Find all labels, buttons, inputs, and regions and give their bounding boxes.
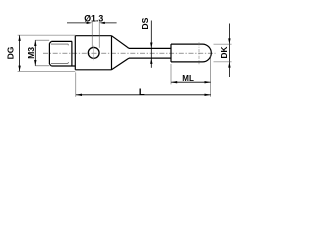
DK arrows xyxy=(228,38,230,44)
cross hole circle xyxy=(88,47,99,58)
L left extension line xyxy=(75,72,77,96)
ML arrows xyxy=(171,81,177,83)
hole vertical centerline xyxy=(93,46,95,61)
L dimension line xyxy=(76,94,211,96)
svg-text:Ø1.3: Ø1.3 xyxy=(84,13,103,23)
DK extension lines xyxy=(214,44,232,62)
thread M3 outline xyxy=(49,41,75,66)
sphere centerline xyxy=(198,42,200,64)
svg-text:DS: DS xyxy=(140,17,150,29)
stem xyxy=(129,48,171,58)
DS arrows xyxy=(150,43,152,49)
DK dimension lines xyxy=(228,24,230,78)
dimension Ø1.3 lines xyxy=(67,22,117,24)
svg-text:ML: ML xyxy=(182,74,194,83)
ML left extension line xyxy=(170,64,172,84)
DG arrows xyxy=(18,35,20,41)
L arrows xyxy=(76,94,82,96)
svg-text:DK: DK xyxy=(219,47,229,59)
DG extension lines xyxy=(18,35,76,71)
dimension Ø1.3 arrows xyxy=(87,22,93,24)
DG dimension line xyxy=(19,35,21,71)
M3 extension lines xyxy=(35,40,49,66)
centerline (horizontal axis) xyxy=(43,52,216,54)
cone xyxy=(112,36,130,70)
svg-text:M3: M3 xyxy=(26,47,36,59)
ML dimension line xyxy=(171,81,211,83)
svg-text:DG: DG xyxy=(6,46,16,59)
M3 arrows xyxy=(34,40,36,46)
tip cylinder with hemispherical end xyxy=(171,44,211,62)
DS dimension lines xyxy=(150,21,152,68)
thread root lines xyxy=(51,44,68,63)
body cylinder xyxy=(75,36,111,70)
dimension Ø1.3 extension lines xyxy=(92,21,99,48)
svg-text:L: L xyxy=(139,87,145,98)
M3 dimension line xyxy=(34,40,36,66)
shared right extension line xyxy=(210,56,212,97)
